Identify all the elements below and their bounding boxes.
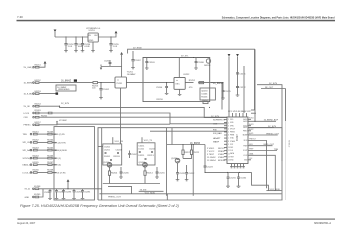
svg-text:SHIELD: SHIELD	[288, 140, 290, 148]
svg-text:C5264: C5264	[156, 87, 163, 89]
svg-text:PREIN: PREIN	[218, 151, 225, 153]
svg-text:CEX: CEX	[230, 147, 233, 149]
svg-text:16.8MHZ: 16.8MHZ	[127, 74, 136, 76]
svg-text:E5254: E5254	[35, 103, 42, 105]
cap inside shield left	[145, 58, 148, 69]
svg-text:11 GND2: 11 GND2	[207, 157, 216, 159]
svg-text:9: 9	[228, 144, 229, 146]
svg-text:16_8MHZ_BUF: 16_8MHZ_BUF	[264, 120, 279, 122]
svg-text:R5214: R5214	[147, 172, 154, 174]
svg-text:M5201: M5201	[204, 65, 211, 67]
svg-text:E5269: E5269	[34, 194, 41, 196]
VCO cell 1	[103, 144, 122, 165]
svg-text:R5222: R5222	[193, 152, 200, 154]
svg-text:C5213: C5213	[149, 148, 156, 150]
IC left pins	[224, 120, 227, 160]
svg-text:C5281: C5281	[44, 192, 51, 194]
svg-text:E5264: E5264	[33, 155, 40, 157]
svg-text:MOD (2) R5: MOD (2) R5	[54, 134, 66, 136]
lower bus wires	[266, 190, 281, 192]
svg-text:7 VCC2: 7 VCC2	[207, 151, 215, 153]
footer rule	[18, 219, 336, 220]
IC right pins	[248, 120, 251, 160]
resistor below Q5201	[109, 167, 111, 171]
svg-text:E5263: E5263	[33, 147, 40, 149]
VCO shield box	[54, 127, 95, 200]
buffer ic U5252	[174, 77, 185, 89]
svg-text:6: 6	[228, 135, 229, 137]
svg-text:U5252: U5252	[183, 74, 190, 76]
svg-text:Q5251: Q5251	[171, 158, 178, 160]
cap C5265	[222, 83, 225, 98]
svg-text:LOCK_DET: LOCK_DET	[23, 172, 35, 174]
svg-text:TX_EN: TX_EN	[140, 190, 147, 192]
crystal Y5251	[115, 77, 126, 88]
svg-text:L5201: L5201	[104, 149, 111, 151]
cap in cell1	[120, 167, 123, 177]
svg-text:R5203: R5203	[114, 156, 121, 158]
wires top right	[257, 85, 286, 89]
svg-text:E5252: E5252	[35, 80, 42, 82]
svg-text:5V_SYN: 5V_SYN	[268, 126, 276, 128]
svg-text:XTAL1: XTAL1	[218, 153, 225, 156]
wire into VCO cell 1	[98, 146, 103, 148]
svg-text:SFOUT: SFOUT	[230, 128, 235, 130]
wire bus L3	[57, 122, 170, 125]
svg-text:PREB: PREB	[230, 135, 234, 137]
svg-text:PRESC_OUT: PRESC_OUT	[266, 133, 279, 135]
svg-text:C5283: C5283	[65, 192, 72, 194]
resistor R5257	[203, 102, 208, 104]
bus line A	[60, 106, 228, 117]
svg-text:R5267: R5267	[47, 162, 54, 164]
wire lower bus B	[139, 190, 164, 192]
cap mid shield	[165, 83, 168, 94]
svg-text:C5266: C5266	[201, 94, 208, 96]
svg-text:E5266: E5266	[33, 170, 40, 172]
svg-text:7-30: 7-30	[17, 15, 23, 19]
net label box	[56, 85, 76, 91]
svg-text:SF_OUT: SF_OUT	[265, 87, 274, 89]
5V arrow lower	[120, 52, 123, 55]
svg-text:VCO_MOD: VCO_MOD	[270, 189, 281, 191]
5V arrow on line	[67, 179, 70, 182]
svg-text:5V_SF: 5V_SF	[24, 106, 31, 108]
svg-text:VCO_MOD: VCO_MOD	[145, 192, 156, 194]
IC top pins	[229, 113, 247, 117]
svg-text:14: 14	[228, 160, 230, 162]
capacitor C5255	[109, 37, 112, 51]
svg-text:E5265: E5265	[33, 162, 40, 164]
svg-text:U5251: U5251	[89, 30, 96, 32]
svg-text:SYNTH_CS: SYNTH_CS	[23, 158, 35, 160]
svg-text:R5264: R5264	[47, 140, 54, 142]
svg-text:16_8MHZ: 16_8MHZ	[24, 82, 34, 84]
junction on fref wire	[166, 131, 167, 132]
capacitor C5254	[81, 37, 84, 51]
wire junction to shield bottom	[166, 194, 168, 200]
wire U5252 supply pin	[178, 58, 180, 95]
svg-text:C5272: C5272	[239, 87, 246, 89]
svg-text:VCO_TX: VCO_TX	[144, 140, 153, 142]
svg-text:R5257: R5257	[202, 100, 209, 102]
svg-text:GND: GND	[89, 40, 94, 42]
wire lower bus C	[99, 193, 281, 195]
right side wires	[251, 112, 256, 114]
svg-text:C5271: C5271	[239, 73, 246, 75]
svg-text:C5262: C5262	[103, 89, 110, 91]
header rule	[17, 20, 336, 22]
regulator ground	[92, 42, 94, 51]
caps under Q5251	[176, 173, 179, 180]
svg-text:5 VDD1: 5 VDD1	[207, 148, 215, 150]
capacitor C5252	[64, 37, 67, 51]
svg-text:8: 8	[228, 141, 229, 143]
svg-text:LOCK (7) R5: LOCK (7) R5	[54, 172, 67, 174]
svg-text:C5285: C5285	[84, 192, 91, 194]
svg-text:7: 7	[228, 138, 229, 140]
svg-text:TRB: TRB	[274, 149, 279, 151]
svg-text:VCP: VCP	[230, 144, 233, 146]
synthesizer IC U5201	[227, 117, 248, 164]
svg-text:C5201: C5201	[104, 147, 111, 149]
svg-text:E5257: E5257	[35, 122, 42, 124]
buffer transistor stage middle	[167, 144, 205, 146]
svg-text:5V_XTL: 5V_XTL	[181, 56, 189, 58]
svg-text:6816982H01-A: 6816982H01-A	[314, 222, 331, 225]
regulator output wire	[98, 34, 116, 37]
svg-text:Q5202: Q5202	[139, 162, 146, 164]
svg-text:2: 2	[228, 122, 229, 124]
supply arrow B+ top left	[54, 32, 56, 37]
svg-text:SFOUT: SFOUT	[218, 148, 226, 150]
IC bottom pins + grounds	[232, 164, 244, 167]
svg-text:C5215: C5215	[159, 173, 166, 175]
resistor below Q5202	[144, 167, 146, 171]
svg-text:VCOBIC: VCOBIC	[59, 120, 67, 122]
caps on 237 vertical	[236, 73, 239, 74]
svg-text:E5251: E5251	[35, 64, 42, 66]
svg-text:E5268: E5268	[34, 186, 41, 188]
svg-text:C5265: C5265	[225, 91, 232, 93]
svg-text:D5211: D5211	[138, 155, 145, 157]
svg-text:R5266: R5266	[47, 155, 54, 157]
svg-text:OSC: OSC	[175, 83, 180, 85]
main shield box	[98, 128, 282, 200]
svg-text:C5222: C5222	[188, 173, 195, 175]
svg-text:13: 13	[228, 156, 230, 158]
svg-text:.01UF: .01UF	[84, 46, 90, 48]
svg-text:TRB: TRB	[23, 134, 28, 136]
capacitor C5207	[128, 151, 131, 159]
bus line C	[39, 116, 227, 118]
wire IC ground rail	[205, 171, 252, 173]
svg-text:5V_A: 5V_A	[25, 188, 31, 191]
svg-text:C5261: C5261	[104, 61, 111, 63]
main 16.8MHz wire	[40, 83, 223, 110]
svg-text:WARP: WARP	[213, 141, 220, 144]
resistor R5221	[182, 145, 184, 151]
svg-text:L5211: L5211	[138, 148, 144, 150]
svg-text:DOUT: DOUT	[243, 150, 247, 152]
capacitor C5256	[131, 51, 134, 68]
ground	[81, 51, 85, 52]
capacitor C5253	[74, 37, 77, 51]
svg-text:LP2989IM5-5.0: LP2989IM5-5.0	[86, 28, 101, 30]
svg-text:E5253: E5253	[35, 91, 42, 93]
transistor Q5202	[143, 163, 148, 168]
svg-text:5V_RSSI: 5V_RSSI	[133, 47, 142, 49]
svg-text:MODIN: MODIN	[218, 160, 225, 162]
svg-text:U5201: U5201	[235, 134, 238, 142]
svg-text:August 24, 2007: August 24, 2007	[17, 222, 36, 225]
svg-text:R5213: R5213	[148, 155, 155, 157]
vertical feed x=244	[243, 66, 245, 113]
svg-text:C5205: C5205	[123, 173, 130, 175]
svg-text:3: 3	[228, 125, 229, 127]
svg-text:C5232: C5232	[240, 178, 247, 180]
junction dots	[65, 36, 66, 37]
oscillator shield box	[143, 58, 210, 102]
svg-text:MOD_OUT: MOD_OUT	[264, 144, 275, 146]
svg-text:FIN: FIN	[213, 130, 217, 132]
wire fref to IC	[150, 130, 227, 132]
svg-text:11: 11	[228, 150, 230, 152]
svg-text:16_8MHZ: 16_8MHZ	[213, 83, 224, 85]
bus line B	[52, 113, 227, 124]
ground	[64, 51, 68, 52]
svg-text:CLK (3) SYN: CLK (3) SYN	[54, 142, 67, 144]
svg-text:E5262: E5262	[33, 140, 40, 142]
svg-text:LOCK: LOCK	[24, 113, 30, 115]
svg-text:12: 12	[228, 153, 230, 155]
svg-text:AUX (6): AUX (6)	[54, 164, 62, 167]
5V line into osc shield	[128, 49, 255, 110]
svg-text:FREF: FREF	[243, 145, 247, 147]
5V supply arrow	[115, 31, 118, 34]
svg-text:PREIN: PREIN	[230, 132, 235, 134]
svg-text:FIN_BAR: FIN_BAR	[213, 132, 222, 135]
cell bottom wire	[103, 183, 160, 185]
svg-text:5V_SYN: 5V_SYN	[269, 83, 277, 85]
resistor R5222	[191, 145, 193, 151]
svg-text:C5211: C5211	[138, 146, 145, 148]
ground	[74, 51, 78, 52]
svg-text:CSX: CSX	[24, 117, 29, 119]
svg-text:TEST: TEST	[230, 156, 234, 158]
svg-text:C5223: C5223	[207, 167, 214, 169]
svg-text:E5261: E5261	[33, 131, 40, 133]
svg-text:DATA_2: DATA_2	[23, 164, 31, 167]
svg-text:R5204: R5204	[111, 172, 118, 174]
capacitor C5261	[109, 60, 112, 66]
svg-text:VCO_RX: VCO_RX	[115, 141, 124, 143]
svg-text:R5265: R5265	[47, 147, 54, 149]
cap x205	[204, 145, 207, 173]
regulator U5251	[88, 33, 98, 42]
svg-text:Schematics, Component Location: Schematics, Component Location Diagrams,…	[222, 17, 335, 20]
transistor Q5251	[175, 158, 180, 163]
svg-text:.1UF: .1UF	[68, 46, 73, 48]
svg-text:IADAPT: IADAPT	[213, 137, 221, 140]
svg-text:Y5251: Y5251	[116, 83, 123, 85]
svg-text:1: 1	[228, 119, 229, 121]
caps under 5V_A line	[49, 189, 52, 199]
ground	[109, 51, 113, 52]
svg-text:5: 5	[228, 132, 229, 134]
svg-text:_BUFFERED: _BUFFERED	[56, 89, 70, 91]
svg-text:SUPERFLTR: SUPERFLTR	[213, 120, 226, 122]
svg-text:R5256: R5256	[201, 97, 208, 99]
svg-text:C5263: C5263	[148, 62, 155, 64]
circle M5201	[206, 59, 210, 63]
svg-text:SFIN: SFIN	[230, 125, 234, 127]
cap below crystal area	[99, 83, 102, 98]
svg-text:13 GND4: 13 GND4	[207, 160, 217, 162]
VCO cell 2	[137, 143, 155, 165]
svg-text:R5258: R5258	[157, 99, 164, 101]
svg-text:VCC VDD SF BIAS VCP: VCC VDD SF BIAS VCP	[228, 110, 251, 113]
svg-text:CEX (5): CEX (5)	[54, 158, 62, 160]
cap in cell2	[156, 167, 159, 177]
svg-text:Q5201: Q5201	[103, 162, 110, 164]
faint right shield edge	[285, 89, 287, 201]
svg-text:C5221: C5221	[179, 173, 186, 175]
svg-text:C5203: C5203	[116, 149, 123, 151]
svg-text:Figure 7-25. HUD4022A/HUD4025: Figure 7-25. HUD4022A/HUD4025B Frequency…	[20, 204, 180, 208]
svg-text:.1UF: .1UF	[113, 46, 118, 48]
resistor R5251	[93, 82, 98, 84]
wire lower bus A	[108, 186, 132, 193]
svg-text:GND: GND	[25, 197, 30, 199]
svg-text:9 TEST: 9 TEST	[207, 154, 215, 156]
svg-text:PRESC: PRESC	[24, 125, 32, 127]
cap C5268	[195, 58, 198, 69]
verticals inside shield	[166, 128, 168, 196]
wire regulator input	[55, 36, 88, 38]
svg-text:4: 4	[228, 129, 229, 131]
svg-text:DATA (4) MOD: DATA (4) MOD	[54, 149, 68, 152]
svg-text:C5267: C5267	[135, 60, 142, 62]
svg-text:R5268: R5268	[47, 170, 54, 172]
small buffer box	[200, 88, 215, 100]
wire 16.8MHz feed to VCO	[120, 88, 122, 144]
svg-text:PRESC_OUT: PRESC_OUT	[108, 196, 121, 198]
svg-text:5V_SYN: 5V_SYN	[61, 103, 69, 105]
top cap network	[101, 57, 122, 77]
svg-text:C5268: C5268	[198, 62, 205, 64]
svg-text:R5261: R5261	[35, 110, 42, 112]
supply arrows over IC	[228, 54, 231, 57]
svg-text:CSX: CSX	[213, 123, 218, 125]
svg-text:C5231: C5231	[230, 178, 237, 180]
vertical wire down left of IC	[192, 145, 194, 196]
svg-text:R5263: R5263	[47, 131, 54, 133]
transistor Q5201	[107, 163, 112, 168]
svg-text:5V_SYN: 5V_SYN	[211, 116, 219, 118]
resistor R5252	[199, 82, 204, 84]
svg-text:D5201: D5201	[104, 156, 111, 158]
svg-text:R5252: R5252	[189, 80, 196, 82]
svg-text:XTAL2: XTAL2	[218, 156, 225, 159]
svg-text:Q5253: Q5253	[201, 91, 208, 93]
svg-text:10: 10	[228, 147, 230, 149]
